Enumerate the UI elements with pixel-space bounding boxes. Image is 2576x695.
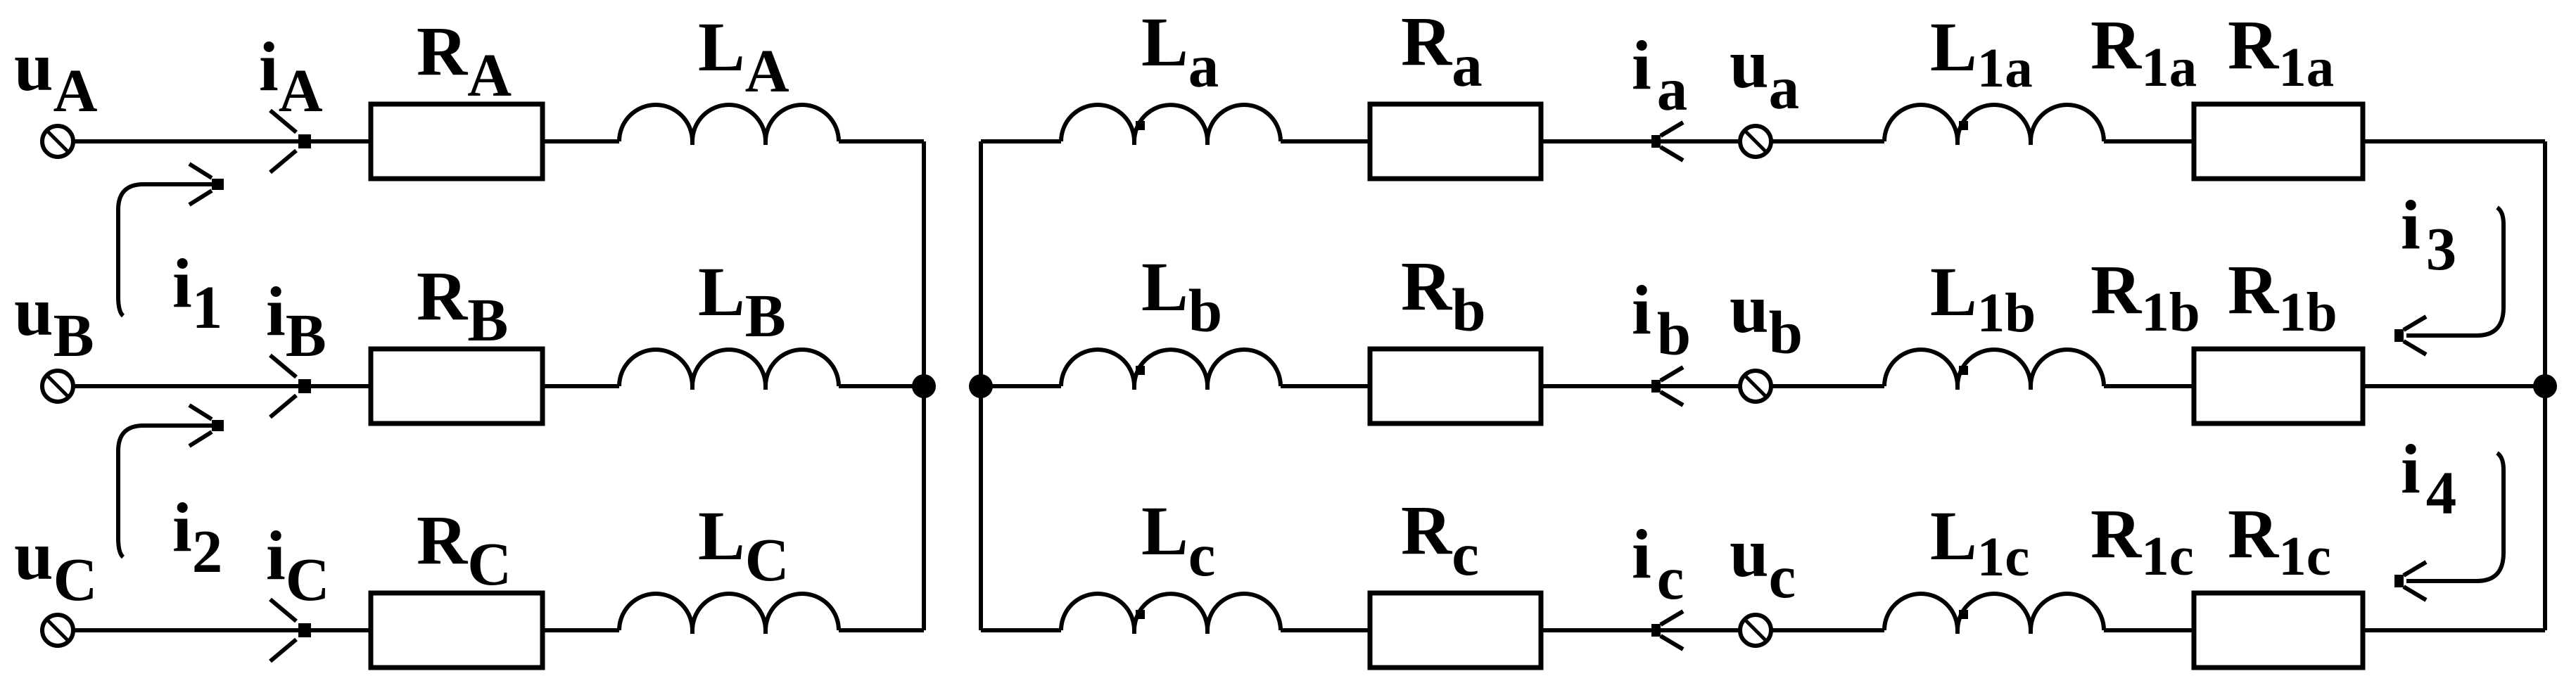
svg-text:R1a: R1a (2228, 6, 2334, 98)
svg-text:uC: uC (14, 516, 97, 613)
svg-text:i4: i4 (2401, 430, 2456, 527)
svg-text:R1a: R1a (2090, 6, 2197, 98)
svg-text:ic: ic (1632, 515, 1684, 612)
svg-text:RA: RA (417, 12, 512, 109)
svg-text:Lc: Lc (1141, 492, 1215, 589)
svg-text:R1b: R1b (2228, 250, 2337, 343)
svg-text:LC: LC (698, 497, 789, 594)
svg-text:RC: RC (417, 501, 512, 598)
svg-text:uc: uc (1730, 514, 1796, 611)
svg-text:ub: ub (1730, 269, 1803, 366)
svg-text:R1c: R1c (2090, 495, 2194, 587)
svg-text:R1b: R1b (2090, 250, 2200, 343)
svg-text:RB: RB (417, 257, 508, 354)
svg-text:uA: uA (14, 27, 98, 125)
svg-text:uB: uB (14, 272, 94, 369)
svg-text:ia: ia (1632, 26, 1687, 123)
svg-text:Lb: Lb (1141, 248, 1222, 345)
svg-text:Ra: Ra (1401, 2, 1483, 99)
svg-text:ib: ib (1632, 271, 1691, 368)
svg-text:L1c: L1c (1930, 497, 2029, 588)
svg-text:i2: i2 (172, 488, 222, 585)
svg-text:iB: iB (266, 272, 326, 369)
svg-text:La: La (1141, 3, 1219, 100)
svg-text:L1b: L1b (1930, 253, 2036, 344)
svg-text:Rc: Rc (1401, 491, 1479, 588)
svg-text:iC: iC (266, 516, 330, 613)
svg-text:i3: i3 (2401, 186, 2456, 283)
svg-text:ua: ua (1730, 25, 1799, 122)
svg-text:L1a: L1a (1930, 8, 2033, 99)
svg-text:R1c: R1c (2228, 495, 2331, 587)
svg-text:LB: LB (698, 253, 786, 350)
svg-text:i1: i1 (172, 244, 222, 341)
svg-text:Rb: Rb (1401, 247, 1486, 344)
svg-text:iA: iA (259, 27, 323, 125)
svg-text:LA: LA (698, 8, 789, 105)
